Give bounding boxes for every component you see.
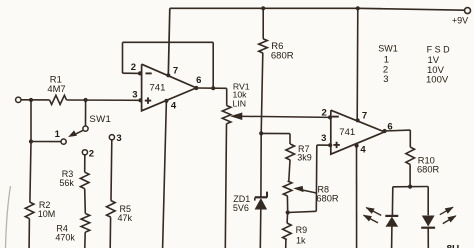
svg-text:+9V: +9V xyxy=(452,15,468,25)
svg-text:100V: 100V xyxy=(426,74,449,85)
svg-text:47k: 47k xyxy=(118,213,133,223)
svg-text:4: 4 xyxy=(171,101,177,112)
svg-text:470k: 470k xyxy=(55,233,75,243)
svg-text:3k9: 3k9 xyxy=(297,153,312,163)
svg-text:3: 3 xyxy=(321,133,326,144)
svg-text:7: 7 xyxy=(362,111,367,122)
svg-text:3: 3 xyxy=(132,90,137,101)
svg-text:2: 2 xyxy=(89,148,94,159)
svg-text:2: 2 xyxy=(131,62,136,73)
svg-text:SW1: SW1 xyxy=(89,114,111,125)
svg-text:3: 3 xyxy=(383,74,388,85)
svg-text:10M: 10M xyxy=(38,209,56,219)
svg-text:680R: 680R xyxy=(271,51,294,62)
svg-text:8U: 8U xyxy=(447,244,460,248)
svg-text:4: 4 xyxy=(360,144,366,155)
svg-text:6: 6 xyxy=(196,75,201,86)
svg-text:1: 1 xyxy=(55,129,61,140)
svg-text:2: 2 xyxy=(322,107,327,118)
svg-text:5V6: 5V6 xyxy=(233,203,249,213)
svg-text:LIN: LIN xyxy=(233,99,247,109)
svg-text:3: 3 xyxy=(116,133,121,144)
svg-text:741: 741 xyxy=(339,127,355,138)
svg-text:4M7: 4M7 xyxy=(47,83,65,94)
svg-text:680R: 680R xyxy=(316,194,339,204)
svg-text:F S D: F S D xyxy=(427,44,451,54)
svg-text:R9: R9 xyxy=(296,225,308,235)
svg-text:741: 741 xyxy=(150,83,166,94)
svg-text:7: 7 xyxy=(173,66,178,77)
svg-text:1k: 1k xyxy=(296,236,306,246)
svg-text:56k: 56k xyxy=(59,178,74,188)
svg-text:6: 6 xyxy=(387,122,392,133)
svg-text:680R: 680R xyxy=(417,164,440,174)
svg-text:SW1: SW1 xyxy=(378,43,398,53)
